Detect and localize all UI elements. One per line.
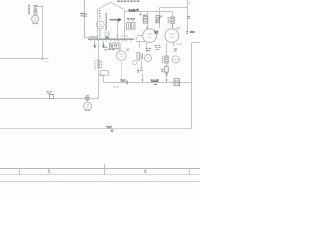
resistor 2k label xyxy=(46,92,52,94)
wire chain x141.5 xyxy=(142,61,143,80)
label 75 xyxy=(174,49,178,51)
arrow into tube V1 xyxy=(146,27,148,30)
junction dot x140.5 xyxy=(140,14,142,16)
wire stub x140.5 xyxy=(140,12,142,16)
wire y7.5 top right xyxy=(160,7,188,9)
wire B wire y11.5 from can xyxy=(125,11,173,13)
lamp circle B inner mark xyxy=(147,57,150,59)
coil horseshoe symbol xyxy=(114,48,118,50)
component x141.5 marks xyxy=(140,69,143,71)
tube V2 label below xyxy=(177,43,183,45)
wire filament bus y128.5 xyxy=(0,128,192,130)
wire x172.5 to resistor and tube xyxy=(172,12,174,26)
resistor 2k box xyxy=(50,94,54,98)
faint ticks on border line 3 xyxy=(56,181,160,183)
padder capacitor hatch xyxy=(156,17,159,21)
osc trimmer box marks xyxy=(129,24,134,29)
heater line below tube V1 xyxy=(136,41,146,43)
dark blob at coil bottom xyxy=(106,37,109,39)
chassis bus hatching xyxy=(90,40,132,42)
terminal box TB on plate bus xyxy=(174,79,180,86)
component B2 xyxy=(165,66,168,72)
resistor 350 box xyxy=(165,56,168,63)
coupling cap text xyxy=(86,95,89,97)
faint circle right of V4 xyxy=(132,60,136,64)
antenna capacitor plates xyxy=(34,8,37,10)
arrow onto plate bus x142.4 xyxy=(142,79,144,82)
label 3(A) on plate bus xyxy=(120,80,125,81)
tube V3 first audio circle xyxy=(84,102,92,110)
coupling cap marks at tube V3 xyxy=(85,97,90,99)
antenna tube circle xyxy=(32,15,39,22)
stub below tube V2 xyxy=(173,43,175,46)
can tuning arrow shaft xyxy=(110,19,119,21)
wire top vertical x84.5 xyxy=(84,0,86,38)
voltage label -35 xyxy=(190,31,195,33)
zone number 5 xyxy=(48,170,50,172)
osc trimmer label text xyxy=(127,18,135,19)
first det label marks xyxy=(111,44,118,47)
lamp circle B xyxy=(145,55,152,62)
tube V4 inner marks xyxy=(119,54,123,57)
can bottom text xyxy=(90,36,97,38)
label 2(A) with down arrow xyxy=(128,9,138,12)
x187 line end blob xyxy=(186,32,188,34)
wire AVC to left edge xyxy=(0,58,49,60)
wire antenna top xyxy=(34,6,43,8)
IF2 resistor cap pair xyxy=(137,53,140,60)
wire stub left of tube V1 xyxy=(138,35,143,37)
label 14(A) xyxy=(151,80,159,81)
label 32 below wire xyxy=(154,83,157,85)
border line 1 xyxy=(0,168,200,170)
osc trimmer box 1 xyxy=(127,23,131,29)
wire chain x166.5 xyxy=(166,43,168,79)
wire right rail x191.5 xyxy=(191,43,193,130)
border tick x19 xyxy=(19,169,21,175)
arrow onto plate bus x166.5 xyxy=(166,79,168,82)
wire vertical x187.5 from top edge xyxy=(187,0,189,34)
tube V1 inner electrodes xyxy=(147,34,153,37)
first det label box xyxy=(110,43,120,48)
antenna tube label xyxy=(32,23,38,25)
component B2 text xyxy=(161,70,164,72)
heater stub below tube V1 xyxy=(139,43,141,48)
wire can inner vertical x117.5 xyxy=(117,20,119,41)
tube V3 label xyxy=(85,109,90,111)
wire AVC bus y98.5 xyxy=(0,98,99,100)
can inner rotated text 300k xyxy=(108,32,110,39)
resistor 350 hatch xyxy=(165,58,168,62)
wire tube V3 grid stub xyxy=(87,99,89,103)
wire tube V4 stub faint xyxy=(121,62,123,80)
marks left of tube V1 xyxy=(136,37,138,39)
antenna resistor box xyxy=(34,12,37,15)
wire plate bus y82.5 xyxy=(104,82,192,84)
tube V4 detector circle xyxy=(117,51,127,61)
label 86 xyxy=(104,47,107,49)
can inner text col2 xyxy=(105,31,107,37)
can inner trimmer circle xyxy=(96,21,104,29)
can inner coil squiggle xyxy=(105,13,106,30)
wire volume control vertical x98.5 xyxy=(98,43,100,100)
volume control label box xyxy=(100,71,108,75)
can tuning arrow head xyxy=(118,18,122,22)
can bottom dashes xyxy=(116,35,128,37)
resistor 600 box xyxy=(143,17,148,23)
resistor 600 label xyxy=(143,14,147,16)
wire vertical x159.5 xyxy=(159,8,161,29)
electrolytic 14uF label xyxy=(106,126,112,127)
capacitor 100 label xyxy=(80,13,84,15)
IF can right edge xyxy=(124,10,126,42)
antenna rotated text Peaked xyxy=(28,5,30,13)
small marks right of V4 xyxy=(127,49,130,51)
wire right edge y42.5 xyxy=(192,42,201,44)
junction marks on plate bus xyxy=(126,80,127,84)
terminal box marks xyxy=(175,80,178,84)
label 1.0M xyxy=(108,48,115,50)
volume control rotated text 300k xyxy=(95,60,102,69)
chassis bus bar xyxy=(88,38,134,40)
resistor x172.5 text left xyxy=(168,17,170,22)
volume control resistor marks xyxy=(97,61,101,68)
electrolytic 14uF symbol xyxy=(110,129,114,132)
tube V2 inner electrodes xyxy=(169,34,175,37)
zone number 6 xyxy=(145,170,147,172)
tube V3 inner marks xyxy=(86,105,90,107)
wire jog from volume control xyxy=(99,76,104,83)
component above arrow x166.5 xyxy=(165,74,168,76)
faint text near top of x98 xyxy=(99,73,101,75)
IF2 cap element xyxy=(141,53,143,59)
text small top right of x187 xyxy=(188,2,190,4)
faint label below plate bus xyxy=(114,86,119,88)
label 6S above lamp xyxy=(146,48,151,50)
wire x147.5 to resistor and tube xyxy=(147,12,149,28)
wire to can y37.5 xyxy=(85,37,98,39)
coil L-6M label xyxy=(110,45,117,47)
padder capacitor box xyxy=(156,16,159,23)
padder arrow diagonal xyxy=(155,15,161,23)
ground arrow below bus 2 xyxy=(102,42,104,48)
text 47k right of x187 xyxy=(187,16,190,18)
wire left vertical from antenna xyxy=(42,7,44,60)
antenna T bar xyxy=(33,5,37,7)
resistor 600 hatch xyxy=(143,18,147,21)
gimmick capacitor X between tubes xyxy=(154,31,158,34)
IF can roof xyxy=(98,2,125,10)
wire x146.5 below tube V1 xyxy=(146,43,148,52)
can inner rotated text 500 xyxy=(99,11,101,37)
border line 3 xyxy=(0,181,200,183)
IF can left edge xyxy=(97,10,99,42)
ground arrow below bus 1 xyxy=(94,42,96,48)
resistor box x172.5 hatch xyxy=(171,19,174,22)
wire antenna chain stubs xyxy=(35,7,37,16)
AVC wire end marks xyxy=(45,60,48,62)
border line 2 xyxy=(0,174,200,176)
tube V2 label xyxy=(176,28,181,29)
circle 75 xyxy=(172,56,179,63)
circle 75 inner mark xyxy=(174,58,177,60)
resistor box x172.5 xyxy=(171,17,174,23)
top printed text row xyxy=(117,0,139,2)
antenna tube inner marks xyxy=(34,18,37,20)
can inner trimmer marks xyxy=(99,23,102,26)
arrow into tube V2 xyxy=(172,25,174,28)
osc trimmer box 2 xyxy=(131,23,135,29)
tube V1 converter circle xyxy=(143,29,157,43)
border tick x104 xyxy=(104,164,106,175)
resistor 350 text xyxy=(162,57,163,62)
marks above 350 resistor xyxy=(155,46,161,50)
grid stub above tube V4 xyxy=(119,47,121,51)
border tick x189 xyxy=(189,169,191,175)
junction dot at AVC xyxy=(42,58,44,60)
component x141.5 mid xyxy=(137,70,140,72)
capacitor 100 on x84.5 xyxy=(82,14,87,16)
tube V2 circle xyxy=(165,29,179,43)
